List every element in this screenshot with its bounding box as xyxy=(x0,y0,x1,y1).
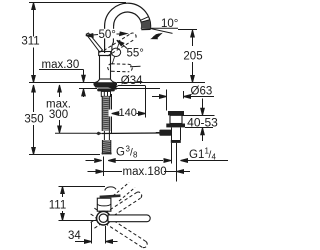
bottom view body xyxy=(97,198,111,211)
neck (spout leg) xyxy=(104,26,106,53)
base escutcheon dark band xyxy=(94,83,118,88)
drain body xyxy=(170,115,182,123)
drain pivot assembly xyxy=(159,130,171,136)
extension line top (spout top level) xyxy=(29,2,126,4)
svg-text:34: 34 xyxy=(68,230,81,242)
svg-text:50°: 50° xyxy=(99,29,116,41)
dimension 350 line xyxy=(33,85,35,112)
dimension 311 line xyxy=(33,3,35,37)
bottom view spout top xyxy=(105,187,116,191)
aerator ring band xyxy=(140,17,148,21)
label 55deg xyxy=(126,47,145,57)
deck bottom line xyxy=(79,88,97,90)
drain tailpipe xyxy=(171,128,173,141)
spout outlet face xyxy=(141,28,150,30)
svg-text:311: 311 xyxy=(21,35,39,47)
dashed lever position up-right xyxy=(104,33,136,56)
drain stopper cap xyxy=(168,111,184,115)
leader 55 arrow xyxy=(122,44,128,49)
extension line 350 bottom xyxy=(29,154,100,156)
svg-text:300: 300 xyxy=(49,109,68,121)
extension line top xyxy=(59,186,106,188)
svg-text:40-53: 40-53 xyxy=(187,115,218,129)
drain flange xyxy=(166,124,185,128)
label 50deg xyxy=(98,29,117,39)
svg-text:140: 140 xyxy=(119,107,137,119)
threaded shank xyxy=(102,96,110,131)
extension line mid xyxy=(59,220,97,222)
ring (handle hub) xyxy=(97,211,111,225)
label G3/8 xyxy=(116,145,138,160)
deck top line xyxy=(29,82,94,84)
solid lever handle (closed position, up-left) xyxy=(86,33,102,52)
extension line spout outlet right xyxy=(178,29,197,31)
faucet base flare xyxy=(94,79,117,83)
spout arch inner xyxy=(114,12,142,29)
dimension Ø63 arrows xyxy=(152,96,159,98)
leader line from horizontal lever xyxy=(130,65,141,68)
extension line faucet pipe down xyxy=(103,157,105,177)
extension line x146 xyxy=(145,86,147,118)
dimension max.300 line xyxy=(59,85,61,97)
G3/8 threaded end xyxy=(102,140,112,155)
leader 50 right arrow xyxy=(117,33,122,35)
spout arch outer xyxy=(105,3,151,29)
40-53 arrows xyxy=(202,99,204,109)
lever pivot collar xyxy=(111,48,120,56)
hex nut xyxy=(101,91,110,96)
svg-text:G: G xyxy=(116,147,125,159)
dashed handle up-right xyxy=(91,192,142,228)
extension line max300 bottom xyxy=(55,132,96,134)
dimension 111 xyxy=(62,187,64,198)
dimension 205 xyxy=(192,30,194,46)
tailpipe extension lines xyxy=(171,143,173,164)
aerator tip shading xyxy=(141,20,150,29)
supply pipe xyxy=(103,131,105,140)
dimension 140 xyxy=(109,110,121,117)
faucet body xyxy=(100,56,111,80)
dashed lever position horizontal xyxy=(108,64,133,72)
extension lines 34 xyxy=(91,223,93,244)
leader 50 left arrow xyxy=(90,34,98,37)
G3/8 diameter arrows (y160) xyxy=(86,160,95,162)
dimension max.180 xyxy=(88,171,96,173)
bottom view lever bar xyxy=(100,194,121,198)
svg-text:G1: G1 xyxy=(189,149,204,161)
svg-text:Ø63: Ø63 xyxy=(191,85,213,97)
dashed handle down-right xyxy=(91,208,148,247)
svg-text:8: 8 xyxy=(133,151,138,160)
solid handle pill xyxy=(108,215,150,222)
extension lines 40-53 xyxy=(182,115,215,117)
svg-text:111: 111 xyxy=(49,200,66,212)
svg-text:max.180: max.180 xyxy=(123,166,167,178)
pop-up linkage rod xyxy=(102,132,160,135)
locknut washer below deck xyxy=(97,88,115,91)
svg-text:4: 4 xyxy=(212,153,217,162)
phantom spout dashes xyxy=(113,183,135,202)
pop-up pull rod xyxy=(111,94,113,134)
label G1 1/4 xyxy=(189,147,217,162)
svg-text:205: 205 xyxy=(183,50,202,62)
svg-text:55°: 55° xyxy=(127,47,144,59)
faucet body cartridge band xyxy=(99,52,111,56)
svg-text:350: 350 xyxy=(24,114,43,126)
